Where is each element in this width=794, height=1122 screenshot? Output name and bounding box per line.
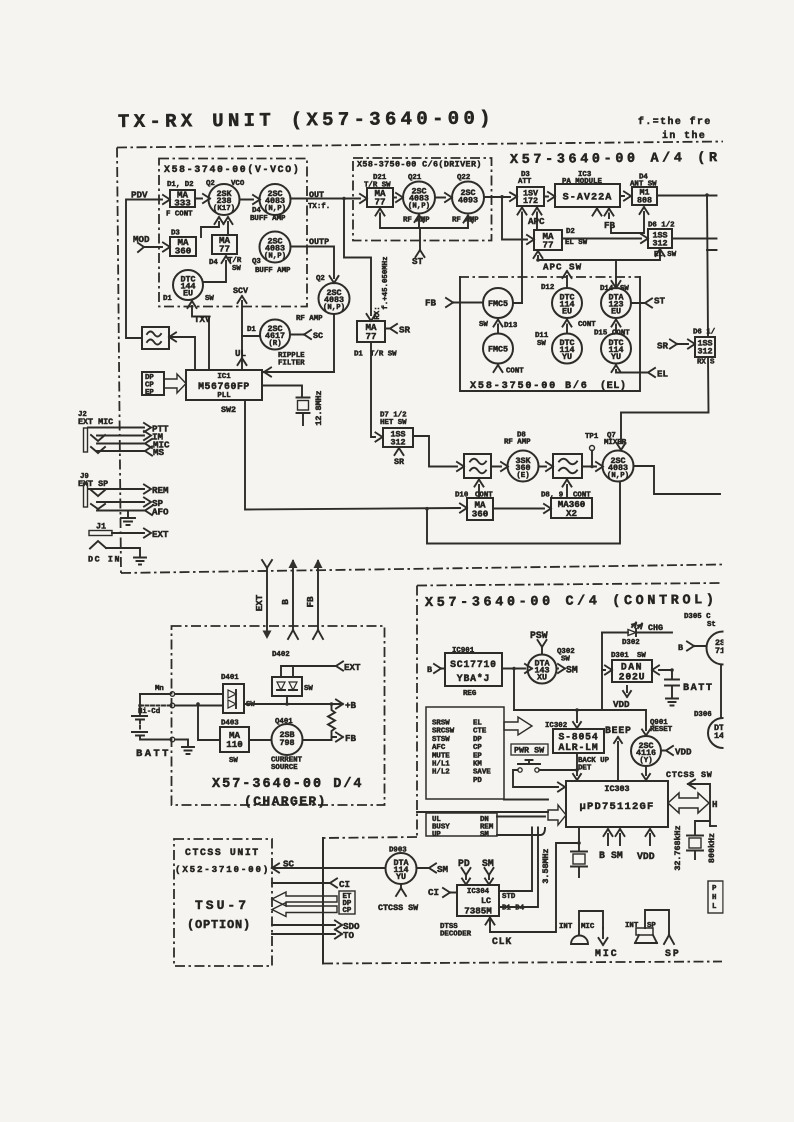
svg-text:B: B <box>599 850 605 861</box>
svg-text:SW: SW <box>479 321 488 329</box>
svg-text:EXT: EXT <box>344 662 361 673</box>
svg-text:(X52-3710-00): (X52-3710-00) <box>175 864 270 875</box>
svg-text:CLK: CLK <box>492 936 512 947</box>
svg-text:DP: DP <box>473 736 482 744</box>
svg-text:CI: CI <box>428 887 439 898</box>
svg-text:PA MODULE: PA MODULE <box>562 178 602 186</box>
svg-text:(K17): (K17) <box>213 205 235 213</box>
svg-text:μPD75112GF: μPD75112GF <box>579 801 654 813</box>
svg-text:F CONT: F CONT <box>166 211 193 219</box>
svg-text:CTCSS SW: CTCSS SW <box>666 770 713 780</box>
svg-text:(N,P): (N,P) <box>264 205 286 213</box>
svg-text:(OPTION): (OPTION) <box>187 918 251 932</box>
svg-text:110: 110 <box>226 739 243 750</box>
svg-text:DC IN: DC IN <box>88 555 121 565</box>
svg-text:CP: CP <box>343 907 352 915</box>
svg-text:172: 172 <box>523 196 538 206</box>
svg-text:77: 77 <box>374 197 385 208</box>
svg-text:77: 77 <box>542 240 553 251</box>
svg-text:DECODER: DECODER <box>440 931 472 939</box>
svg-text:D306: D306 <box>694 711 712 719</box>
svg-text:EU: EU <box>562 307 572 317</box>
svg-text:4093: 4093 <box>458 196 478 206</box>
svg-text:D402: D402 <box>272 651 290 659</box>
svg-text:3.58MHz: 3.58MHz <box>541 848 551 883</box>
svg-text:BEEP: BEEP <box>605 725 632 736</box>
svg-text:RESET: RESET <box>650 726 673 734</box>
svg-text:202U: 202U <box>619 672 646 683</box>
svg-text:SW: SW <box>304 685 313 693</box>
svg-text:DET: DET <box>578 765 592 773</box>
svg-text:D3: D3 <box>171 230 180 238</box>
svg-text:MIC: MIC <box>595 948 619 959</box>
svg-text:CONT: CONT <box>506 368 524 376</box>
svg-text:Mn: Mn <box>155 685 164 693</box>
svg-text:MUTE: MUTE <box>432 752 450 760</box>
svg-text:CONT: CONT <box>578 321 596 329</box>
svg-text:D4: D4 <box>209 259 218 267</box>
svg-text:VDD: VDD <box>637 851 655 862</box>
svg-text:D2: D2 <box>566 228 575 236</box>
svg-text:EU: EU <box>183 289 193 299</box>
svg-text:SW: SW <box>620 285 629 293</box>
svg-text:SM: SM <box>566 665 578 676</box>
svg-text:+B: +B <box>345 700 357 711</box>
svg-text:X57-3640-00 A/4 (R: X57-3640-00 A/4 (R <box>510 151 721 168</box>
svg-text:D6 1/: D6 1/ <box>693 329 716 337</box>
svg-text:AFO: AFO <box>152 507 169 518</box>
svg-text:RF AMP: RF AMP <box>296 315 323 323</box>
svg-text:312: 312 <box>652 239 667 249</box>
svg-text:St: St <box>707 621 716 629</box>
svg-text:PD: PD <box>473 777 482 785</box>
svg-text:SCV: SCV <box>233 286 249 296</box>
svg-text:H/L1: H/L1 <box>432 761 450 769</box>
svg-text:X58-3750-00 C/6(DRIVER): X58-3750-00 C/6(DRIVER) <box>357 160 482 170</box>
svg-text:H: H <box>712 894 716 902</box>
svg-text:SR: SR <box>657 341 669 352</box>
svg-text:L: L <box>712 903 717 911</box>
svg-text:Ni-Cd: Ni-Cd <box>138 708 160 716</box>
svg-text:SC17710: SC17710 <box>450 659 497 670</box>
svg-text:CONT: CONT <box>573 492 591 500</box>
svg-text:FMC5: FMC5 <box>488 345 508 355</box>
svg-text:D11: D11 <box>535 332 549 340</box>
svg-text:X57-3640-00 C/4 (CONTROL): X57-3640-00 C/4 (CONTROL) <box>425 593 718 611</box>
svg-text:ST: ST <box>412 256 424 267</box>
svg-text:PLL: PLL <box>217 392 231 400</box>
svg-text:ST: ST <box>654 296 666 307</box>
svg-text:HET SW: HET SW <box>380 419 407 427</box>
svg-text:SAVE: SAVE <box>473 769 491 777</box>
svg-text:LC: LC <box>481 896 491 906</box>
svg-text:EXT: EXT <box>152 529 169 540</box>
svg-text:FB: FB <box>425 298 437 309</box>
svg-text:TXV: TXV <box>194 314 211 325</box>
svg-text:TX-RX UNIT (X57-3640-00): TX-RX UNIT (X57-3640-00) <box>118 107 495 133</box>
svg-text:VCO: VCO <box>231 180 245 188</box>
svg-text:TSU-7: TSU-7 <box>195 898 249 913</box>
svg-text:SW: SW <box>246 701 255 709</box>
svg-text:CTCSS UNIT: CTCSS UNIT <box>185 847 260 858</box>
svg-text:SW2: SW2 <box>221 405 236 415</box>
svg-text:ALR-LM: ALR-LM <box>558 742 598 753</box>
svg-text:CONT: CONT <box>612 330 630 338</box>
svg-text:CTE: CTE <box>473 728 487 736</box>
svg-text:RF AMP: RF AMP <box>504 439 531 447</box>
svg-text:12.8MHz: 12.8MHz <box>314 390 324 425</box>
svg-text:(N,P): (N,P) <box>264 253 286 261</box>
svg-text:14: 14 <box>714 731 724 741</box>
svg-text:(EL): (EL) <box>600 380 626 392</box>
svg-text:798: 798 <box>279 738 294 748</box>
svg-text:360: 360 <box>175 246 192 257</box>
svg-text:BATT: BATT <box>136 748 171 760</box>
svg-text:M56760FP: M56760FP <box>198 381 250 392</box>
svg-text:ANT SW: ANT SW <box>630 181 657 189</box>
svg-text:SR: SR <box>399 325 411 336</box>
svg-text:REG: REG <box>463 690 477 698</box>
svg-text:S: S <box>710 359 715 367</box>
svg-text:IC304: IC304 <box>467 888 490 896</box>
svg-text:X57-3640-00 D/4: X57-3640-00 D/4 <box>212 777 364 792</box>
svg-text:77: 77 <box>219 244 230 255</box>
svg-text:YBA*J: YBA*J <box>457 673 490 684</box>
svg-text:PSW: PSW <box>530 630 548 641</box>
svg-text:SM: SM <box>437 864 449 875</box>
svg-text:VDD: VDD <box>613 699 630 710</box>
svg-text:S-8054: S-8054 <box>558 732 598 743</box>
svg-text:BUFF AMP: BUFF AMP <box>250 215 286 223</box>
svg-text:7385M: 7385M <box>464 906 492 917</box>
svg-text:OUTP: OUTP <box>309 237 329 247</box>
svg-text:(N,P): (N,P) <box>607 472 629 480</box>
svg-text:EXT SP: EXT SP <box>78 479 108 489</box>
svg-text:312: 312 <box>697 347 712 357</box>
svg-text:EL: EL <box>473 720 482 728</box>
svg-text:D305 C: D305 C <box>684 613 711 621</box>
svg-text:APC SW: APC SW <box>543 262 582 273</box>
svg-text:BUFF AMP: BUFF AMP <box>255 267 291 275</box>
svg-text:Q2: Q2 <box>206 180 215 188</box>
svg-text:EU: EU <box>611 307 621 317</box>
svg-text:TP1: TP1 <box>585 433 599 441</box>
svg-text:EXT MIC: EXT MIC <box>78 417 113 427</box>
svg-text:(N,P): (N,P) <box>323 304 345 312</box>
svg-text:D302: D302 <box>622 639 640 647</box>
svg-text:Q3: Q3 <box>252 258 261 266</box>
svg-text:SP: SP <box>665 948 681 959</box>
svg-text:RX: RX <box>697 359 706 367</box>
svg-text:YU: YU <box>611 352 621 362</box>
svg-text:D14: D14 <box>600 285 614 293</box>
svg-text:EL SW: EL SW <box>654 251 677 259</box>
svg-text:f.+45.050MHz: f.+45.050MHz <box>382 256 390 309</box>
svg-text:333: 333 <box>174 198 191 209</box>
svg-text:(N,P): (N,P) <box>408 203 430 211</box>
svg-text:EXT: EXT <box>254 594 265 611</box>
svg-text:X58-3750-00 B/6: X58-3750-00 B/6 <box>470 380 589 392</box>
svg-text:FB: FB <box>604 220 616 231</box>
svg-text:EP: EP <box>473 752 482 760</box>
svg-text:UL: UL <box>235 348 247 359</box>
svg-text:EL SW: EL SW <box>565 239 588 247</box>
svg-text:STD: STD <box>502 893 516 901</box>
svg-text:32.768kHz: 32.768kHz <box>673 825 683 870</box>
svg-text:D15: D15 <box>594 330 608 338</box>
svg-text:CONT: CONT <box>475 492 493 500</box>
svg-text:VDD: VDD <box>675 747 692 758</box>
svg-text:X2: X2 <box>566 508 577 519</box>
svg-text:SW: SW <box>637 652 646 660</box>
svg-text:PWR SW: PWR SW <box>514 746 545 756</box>
svg-text:MIC: MIC <box>581 923 595 931</box>
svg-text:CTCSS SW: CTCSS SW <box>378 903 419 913</box>
svg-text:Q2: Q2 <box>316 275 325 283</box>
svg-text:EP: EP <box>145 389 154 397</box>
svg-text:MOD: MOD <box>133 234 150 245</box>
svg-text:TO: TO <box>343 930 355 941</box>
svg-text:B: B <box>427 665 432 675</box>
svg-text:D13: D13 <box>504 322 518 330</box>
svg-text:SRCSW: SRCSW <box>432 728 455 736</box>
svg-text:D8, 9: D8, 9 <box>541 492 563 500</box>
svg-text:PD: PD <box>458 858 470 869</box>
svg-text:SC: SC <box>283 859 295 870</box>
svg-text:SP: SP <box>647 922 656 930</box>
svg-text:(CHARGER): (CHARGER) <box>244 794 327 809</box>
svg-text:T/R SW: T/R SW <box>364 182 391 190</box>
svg-text:SW: SW <box>229 757 238 765</box>
svg-text:B: B <box>280 599 291 605</box>
svg-text:D1: D1 <box>163 295 172 303</box>
svg-text:IC1: IC1 <box>217 373 231 381</box>
svg-text:XU: XU <box>537 673 547 683</box>
svg-text:B: B <box>678 643 683 653</box>
svg-text:312: 312 <box>390 438 405 448</box>
svg-text:SM: SM <box>480 831 489 839</box>
svg-text:RX:: RX: <box>374 306 382 319</box>
svg-text:SOURCE: SOURCE <box>271 764 298 772</box>
svg-text:MS: MS <box>153 447 165 458</box>
svg-text:360: 360 <box>472 509 489 520</box>
svg-text:D4: D4 <box>252 207 261 215</box>
svg-text:S-AV22A: S-AV22A <box>563 193 613 204</box>
svg-text:f.=the fre: f.=the fre <box>638 116 712 127</box>
svg-text:T/R SW: T/R SW <box>370 351 397 359</box>
svg-text:(R): (R) <box>268 340 281 348</box>
svg-text:CI: CI <box>339 879 350 890</box>
svg-text:YU: YU <box>562 352 572 362</box>
svg-text:SRSW: SRSW <box>432 720 450 728</box>
svg-text:BATT: BATT <box>683 683 713 694</box>
svg-text:APC: APC <box>528 216 545 227</box>
svg-text:SM: SM <box>611 850 623 861</box>
svg-text:D12: D12 <box>541 284 554 292</box>
svg-text:FB: FB <box>305 596 316 608</box>
svg-text:D1: D1 <box>354 351 363 359</box>
svg-text:X58-3740-00(V-VCO): X58-3740-00(V-VCO) <box>164 164 300 175</box>
svg-text:(E): (E) <box>516 472 529 480</box>
svg-text:D903: D903 <box>389 847 407 855</box>
svg-text:INT: INT <box>625 922 639 930</box>
svg-text:800kHz: 800kHz <box>707 833 717 863</box>
svg-text:77: 77 <box>365 331 376 342</box>
svg-text:D6 1/2: D6 1/2 <box>648 222 675 230</box>
svg-text:Q22: Q22 <box>457 174 470 182</box>
svg-text:KM: KM <box>473 761 482 769</box>
svg-text:EL: EL <box>657 369 669 380</box>
svg-text:P: P <box>712 885 717 893</box>
svg-text:Q21: Q21 <box>408 174 422 182</box>
svg-text:D401: D401 <box>221 674 239 682</box>
svg-text:REM: REM <box>152 485 169 496</box>
svg-text:AFC: AFC <box>432 744 446 752</box>
svg-text:CHG: CHG <box>648 623 663 633</box>
svg-text:TX:f.: TX:f. <box>308 203 330 211</box>
svg-text:IC303: IC303 <box>604 784 629 794</box>
svg-text:H/L2: H/L2 <box>432 769 450 777</box>
svg-text:FMC5: FMC5 <box>488 299 508 309</box>
svg-text:D403: D403 <box>221 720 239 728</box>
svg-text:FILTER: FILTER <box>278 360 305 368</box>
svg-text:H: H <box>712 799 718 810</box>
svg-text:ATT: ATT <box>518 178 532 186</box>
svg-text:D1: D1 <box>247 326 256 334</box>
svg-text:D301: D301 <box>611 652 629 660</box>
svg-text:YU: YU <box>396 872 406 882</box>
svg-text:STSW: STSW <box>432 736 450 744</box>
svg-text:FB: FB <box>345 733 357 744</box>
svg-text:CP: CP <box>473 744 482 752</box>
svg-text:in the: in the <box>662 130 706 141</box>
svg-text:SC: SC <box>313 331 323 341</box>
svg-text:(Y): (Y) <box>639 757 652 765</box>
svg-text:SW: SW <box>537 340 546 348</box>
svg-text:SW: SW <box>232 265 241 273</box>
svg-text:D1, D2: D1, D2 <box>167 181 194 189</box>
svg-text:SR: SR <box>394 457 405 467</box>
svg-text:INT: INT <box>559 923 573 931</box>
svg-text:SW: SW <box>205 295 214 303</box>
svg-text:UP: UP <box>432 831 441 839</box>
svg-text:808: 808 <box>637 196 652 206</box>
svg-text:D1~D4: D1~D4 <box>502 905 525 913</box>
svg-text:SW: SW <box>561 656 570 664</box>
svg-text:D10: D10 <box>455 492 469 500</box>
svg-text:Q401: Q401 <box>275 718 293 726</box>
